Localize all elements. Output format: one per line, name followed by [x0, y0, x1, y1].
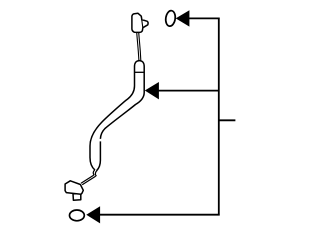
arrow callout 2 (middle) [145, 82, 159, 99]
thin pipe (bottom) line a [81, 170, 95, 183]
wire top callout horizontal [189, 17, 220, 19]
bottom fitting body [65, 181, 83, 195]
arrow callout 3 (bottom) [86, 206, 100, 223]
cylinder collar line [135, 71, 145, 73]
hose tube outer edge (left side + top cap + right upper edge) [90, 61, 144, 171]
wire middle callout horizontal [158, 90, 218, 92]
thin pipe (top) line b [139, 33, 141, 61]
o-ring seal (top) [165, 10, 176, 27]
bottom fitting tab [73, 194, 81, 201]
thin pipe (bottom) line b [82, 171, 97, 185]
wire tick stub [219, 119, 236, 121]
top fitting facet line [141, 16, 143, 27]
wire right vertical bracket [218, 18, 220, 216]
top fitting connector body [132, 13, 148, 32]
wire bottom callout horizontal [100, 214, 220, 216]
hose tube right lower edge (after joint gap) [97, 141, 101, 170]
o-ring seal (bottom) [70, 210, 85, 221]
thin pipe (top) line a [137, 33, 139, 61]
arrow callout 1 (top) [176, 10, 190, 26]
